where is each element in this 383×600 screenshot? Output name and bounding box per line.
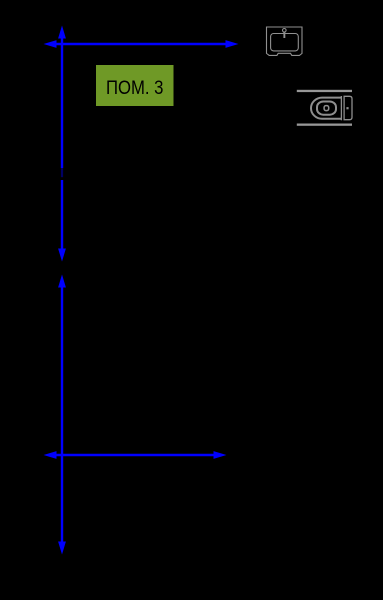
svg-text:ПОМ. 3: ПОМ. 3: [106, 78, 164, 99]
